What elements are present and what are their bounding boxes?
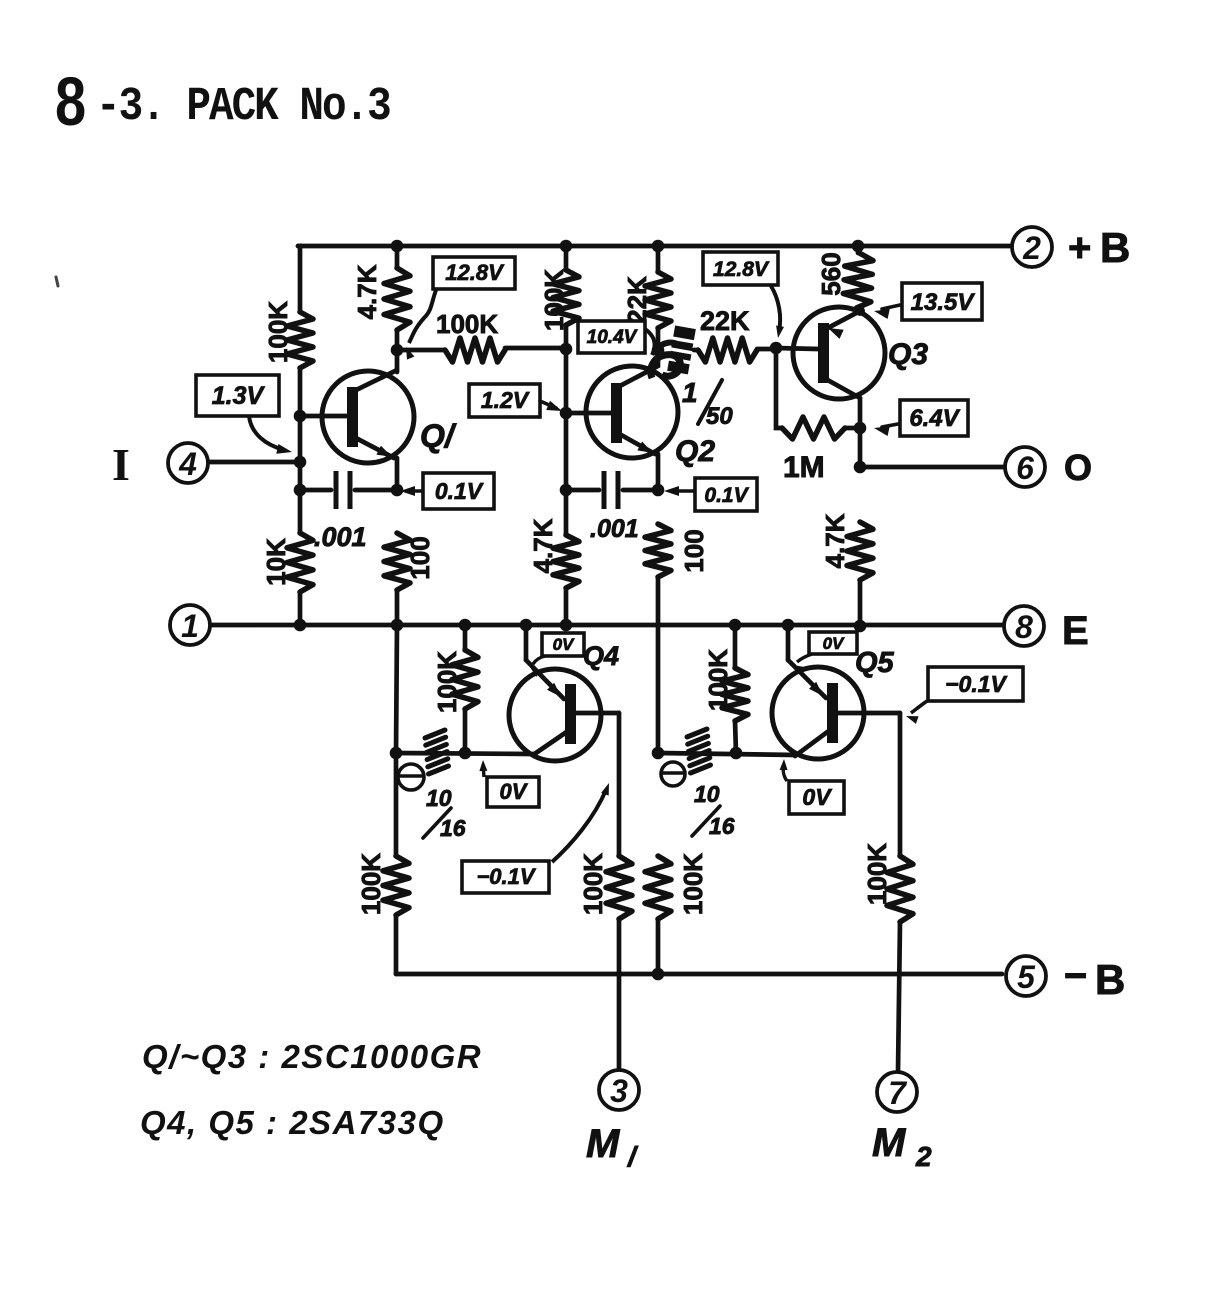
- svg-text:100K: 100K: [436, 309, 498, 339]
- svg-text:10K: 10K: [261, 538, 291, 586]
- svg-text:10: 10: [426, 785, 452, 811]
- svg-text:16: 16: [440, 815, 466, 841]
- callout box 6.4V: [900, 400, 968, 436]
- resistor 100K (Q1 base bias upper): [287, 312, 313, 368]
- terminal 1: [170, 605, 210, 645]
- svg-text:.001: .001: [590, 515, 639, 543]
- svg-text:100K: 100K: [356, 853, 386, 915]
- wire Q2 base column: [564, 349, 569, 490]
- wire x658 to -B: [656, 919, 661, 974]
- callout box 1.3V: [196, 375, 279, 416]
- arrow 1.2V: [546, 401, 562, 411]
- resistor 100K (Q4 bias): [452, 650, 478, 709]
- arrow Q1 emitter: [376, 446, 392, 457]
- transistor Q3: [793, 307, 885, 399]
- node cap1 left: [294, 484, 307, 497]
- wire +B rail: [298, 244, 1010, 249]
- svg-text:−0.1V: −0.1V: [476, 864, 536, 889]
- wire Q5 base lead: [838, 711, 900, 716]
- resistor 4.7K (Q2 base lower): [553, 535, 579, 588]
- svg-text:Q4, Q5 : 2SA733Q: Q4, Q5 : 2SA733Q: [140, 1104, 445, 1141]
- arrow 0.1V 2: [664, 486, 679, 496]
- svg-text:100: 100: [679, 529, 709, 572]
- svg-text:13.5V: 13.5V: [911, 289, 976, 316]
- resistor 100K (M2): [887, 856, 913, 922]
- wire Q5 emitter diagonal: [788, 660, 826, 698]
- arrow 13.5V: [874, 309, 890, 319]
- transistor Q2: [586, 366, 678, 458]
- svg-text:8: 8: [1015, 609, 1033, 645]
- resistor 22K (Q2 collector): [645, 272, 671, 328]
- resistor 100K (bottom left): [383, 856, 409, 915]
- wire Q5 emitter feed: [786, 625, 791, 660]
- node 1M right: [854, 422, 867, 435]
- node +B/560: [852, 240, 865, 253]
- node Q3 base: [770, 342, 783, 355]
- arrow Q4 emitter: [547, 683, 561, 697]
- svg-text:560: 560: [816, 252, 846, 295]
- node 100K-Q5 bottom: [730, 747, 743, 760]
- wire -B rail: [396, 972, 1002, 977]
- capacitor C2 .001: [602, 471, 607, 509]
- wire left-bottom column: [396, 625, 397, 753]
- wire cap2 left lead: [566, 488, 599, 493]
- pointer 0V Q5 top: [797, 654, 812, 662]
- wire Q5 collector diagonal: [795, 730, 830, 756]
- wire 22K horiz left: [694, 348, 698, 353]
- wire Q1 emitter drop: [395, 458, 400, 490]
- svg-text:4.7K: 4.7K: [528, 518, 558, 573]
- node input junction: [294, 456, 307, 469]
- svg-text:100K: 100K: [678, 853, 708, 915]
- svg-text:Q/~Q3 : 2SC1000GR: Q/~Q3 : 2SC1000GR: [142, 1038, 482, 1075]
- callout box 0V (Q5 collector): [789, 781, 844, 814]
- pointer curve 12.8V-2: [771, 286, 780, 331]
- resistor 10K: [287, 533, 313, 592]
- node Q2 bias junction: [560, 343, 573, 356]
- node +B/22K: [652, 240, 665, 253]
- svg-text:1.2V: 1.2V: [481, 387, 530, 413]
- node 100K-Q4/E rail: [459, 619, 472, 632]
- wire Q1 emitter diagonal: [352, 436, 394, 458]
- svg-text:2: 2: [915, 1141, 932, 1172]
- svg-text:E: E: [1062, 609, 1089, 653]
- node Q3 collector top: [855, 306, 865, 316]
- node trimmer wire 1 left: [390, 747, 403, 760]
- node 4.7K-2/E rail: [560, 619, 573, 632]
- node trimmer wire 2 left: [652, 747, 665, 760]
- svg-text:100: 100: [405, 536, 435, 579]
- svg-text:0V: 0V: [823, 634, 845, 653]
- arrow Q2 emitter: [637, 442, 653, 454]
- wire 22K horiz right: [757, 347, 776, 352]
- svg-text:0V: 0V: [802, 784, 832, 810]
- terminal 8: [1004, 606, 1044, 646]
- wire cap1 left lead: [300, 488, 331, 493]
- wire Q2 collector diagonal: [616, 350, 658, 388]
- resistor 560: [843, 252, 874, 308]
- terminal 2: [1012, 227, 1052, 267]
- wire 100 bottom: [395, 590, 400, 625]
- polarity circle 2: [661, 762, 685, 786]
- wire cap1 right lead: [355, 488, 397, 493]
- wire 1.2V arrow: [540, 401, 556, 408]
- resistor 100 (Q2 emitter): [645, 524, 671, 577]
- terminal 6: [1005, 447, 1045, 487]
- wire E rail: [210, 623, 1004, 628]
- svg-text:.001: .001: [314, 522, 367, 552]
- pointer -0.1V M2: [911, 701, 927, 713]
- wire Q3 emitter diagonal: [824, 378, 860, 398]
- resistor 4.7K (Q1 collector): [384, 268, 410, 330]
- wire Q1 base lead: [300, 414, 347, 419]
- wire 100K-BL top: [394, 753, 399, 856]
- callout box 0.1V (Q1): [423, 473, 494, 509]
- resistor 100K (interstage): [445, 338, 505, 362]
- wire cap2 right lead: [623, 488, 658, 493]
- svg-text:1.3V: 1.3V: [212, 382, 266, 410]
- svg-text:12.8V: 12.8V: [713, 258, 770, 281]
- wire 4.7K-2 bottom lead: [564, 588, 569, 625]
- svg-text:−0.1V: −0.1V: [945, 671, 1007, 697]
- wire Q4 base lead: [576, 711, 619, 716]
- callout box 0V (Q4 collector): [487, 777, 539, 807]
- svg-text:5: 5: [1017, 959, 1036, 995]
- svg-text:Q4: Q4: [583, 641, 619, 671]
- wire Q4 collector diagonal: [533, 731, 568, 755]
- node cap2 left: [560, 484, 573, 497]
- svg-text:1: 1: [682, 377, 698, 408]
- wire Q2 base lead: [566, 411, 611, 416]
- terminal 5: [1006, 956, 1046, 996]
- svg-text:12.8V: 12.8V: [445, 260, 505, 285]
- svg-text:−: −: [1064, 954, 1087, 998]
- svg-text:7: 7: [888, 1075, 908, 1111]
- pointer curve 1.3V: [249, 416, 284, 450]
- svg-text:B: B: [1095, 956, 1125, 1003]
- wire 100K horiz right: [505, 346, 566, 351]
- arrow 6.4V: [874, 426, 890, 436]
- node Q2 base: [560, 407, 573, 420]
- capacitor C1 .001: [334, 471, 339, 509]
- wire trimmer 2: [658, 753, 795, 755]
- wire I input: [210, 460, 300, 465]
- wire to Q1 collector node: [395, 330, 400, 350]
- node Q5 emitter/E rail: [782, 619, 795, 632]
- svg-text:I: I: [112, 439, 130, 490]
- wire M2 column: [898, 713, 903, 856]
- node +B/4.7K: [391, 240, 404, 253]
- svg-text:Q/: Q/: [420, 418, 457, 454]
- svg-text:Q2: Q2: [675, 435, 715, 468]
- wire trimmer 1: [396, 753, 533, 754]
- pointer 0V Q4 bottom: [483, 765, 484, 777]
- node E rail left: [294, 619, 307, 632]
- wire 100K-BL bottom: [394, 915, 399, 974]
- callout box 10.4V: [578, 321, 645, 353]
- svg-text:Q3: Q3: [888, 338, 928, 371]
- callout box 1.2V: [469, 384, 540, 417]
- wire M1 column bottom: [617, 919, 622, 1070]
- wire 22K bottom: [656, 328, 661, 350]
- svg-text:22K: 22K: [700, 306, 750, 336]
- svg-text:6: 6: [1016, 450, 1034, 486]
- svg-text:+: +: [1068, 226, 1091, 270]
- scribble blob: [664, 325, 700, 375]
- wire O output: [860, 465, 1005, 470]
- wire 1M right lead: [845, 426, 860, 431]
- callout box -0.1V (M2): [928, 667, 1023, 701]
- callout box 12.8V (Q1 collector): [433, 257, 515, 289]
- wire Q2 emitter long drop: [656, 577, 661, 753]
- svg-text:O: O: [1064, 447, 1092, 488]
- wire 100K-Q4 top lead: [463, 625, 468, 650]
- resistor 1M: [782, 417, 845, 439]
- node cap1 right: [391, 484, 404, 497]
- arrow squiggle tip: [406, 347, 414, 360]
- callout box 0V (Q5 base top): [809, 632, 857, 654]
- wire Q2 emitter drop: [656, 454, 661, 490]
- arrow Q3 collector: [828, 328, 844, 339]
- svg-text:100K: 100K: [578, 853, 608, 915]
- label 1/50 slash: [698, 380, 722, 424]
- svg-text:0V: 0V: [553, 635, 575, 654]
- callout box 0V (Q4 base top): [542, 633, 584, 656]
- svg-text:2: 2: [1022, 230, 1041, 266]
- wire Q1 collector diagonal: [352, 370, 397, 392]
- svg-text:B: B: [1100, 224, 1130, 271]
- svg-text:0.1V: 0.1V: [704, 484, 749, 507]
- svg-text:4.7K: 4.7K: [820, 513, 850, 568]
- arrow -0.1V M1: [601, 783, 609, 796]
- transistor Q4: [509, 669, 601, 761]
- resistor 100K (Q5 bias): [722, 668, 748, 721]
- wire M2 column bottom: [898, 922, 900, 1072]
- wire Q2 emitter diagonal: [616, 432, 655, 454]
- node Q2 collector: [652, 344, 665, 357]
- wire Q3 collector diagonal: [824, 311, 860, 330]
- arrow 1.3V: [276, 444, 292, 454]
- callout box 12.8V (Q3 base): [703, 252, 778, 285]
- svg-text:M: M: [872, 1121, 907, 1165]
- wire Q3 base drop: [776, 348, 782, 428]
- wire 4.7K top: [395, 246, 400, 268]
- wire 100K-Q5 bottom lead: [735, 721, 736, 753]
- wire Q3 emitter drop: [858, 398, 863, 467]
- svg-text:10: 10: [694, 781, 720, 807]
- wire 560 top: [856, 246, 861, 253]
- trimmer hatch 2: [687, 729, 707, 737]
- node Q1 collector: [391, 344, 404, 357]
- node Q4 emitter/E rail: [520, 619, 533, 632]
- resistor 100 (Q1 emitter): [384, 533, 410, 590]
- svg-text:-3. PACK No.3: -3. PACK No.3: [96, 80, 390, 134]
- wire 22K top: [656, 246, 661, 272]
- terminal 3: [599, 1070, 639, 1110]
- svg-text:1: 1: [181, 608, 199, 644]
- node 100K-Q5/E rail: [729, 619, 742, 632]
- arrow 12.8V-2: [776, 326, 784, 339]
- svg-text:16: 16: [709, 813, 735, 839]
- wire Q3 base lead: [776, 348, 818, 349]
- wire 100K horiz left: [397, 348, 445, 353]
- wire 6.4V arrow: [882, 424, 898, 427]
- svg-text:4: 4: [178, 446, 197, 482]
- wire 4.7K-2 top lead: [564, 490, 569, 535]
- resistor 100K (Q2 bias): [553, 270, 579, 325]
- arrow Q5 emitter: [809, 682, 823, 696]
- wire Q2 bias top: [564, 246, 569, 270]
- wire 0.1V arrow 1: [407, 489, 421, 493]
- svg-text:Q5: Q5: [855, 647, 895, 679]
- wire Q1 collector stub: [395, 350, 400, 372]
- callout box -0.1V (M1): [462, 861, 549, 893]
- node +B/100K-2: [560, 240, 573, 253]
- trimmer hatch 1: [425, 730, 445, 738]
- wire 100K-Q5 top lead: [733, 625, 738, 668]
- svg-text:0V: 0V: [500, 779, 529, 804]
- node 100/E rail: [391, 619, 404, 632]
- svg-text:50: 50: [706, 403, 733, 430]
- wire 0.1V arrow 2: [672, 489, 693, 493]
- resistor 100K (M1): [606, 856, 632, 919]
- pointer curve 10.4V: [645, 329, 655, 355]
- svg-text:4.7K: 4.7K: [352, 264, 382, 319]
- wire 100K-Q4 bottom lead: [463, 709, 468, 753]
- terminal 7: [877, 1072, 917, 1112]
- svg-text:3: 3: [610, 1073, 628, 1109]
- wire 13.5V arrow: [882, 305, 900, 309]
- pointer curve -0.1V M1: [552, 790, 606, 862]
- svg-text:100K: 100K: [703, 649, 733, 711]
- svg-text:0.1V: 0.1V: [435, 478, 484, 504]
- resistor 22K (interstage): [698, 338, 757, 362]
- resistor 100K (x658 lower): [645, 856, 671, 919]
- svg-text:M: M: [586, 1122, 621, 1166]
- wire M1 column: [617, 713, 622, 856]
- node cap2 right: [652, 484, 665, 497]
- wire Q2 bias bottom: [564, 325, 569, 349]
- node Q1 base: [294, 410, 307, 423]
- wire left column top: [298, 246, 300, 312]
- wire 4.7K-3 bottom: [858, 580, 863, 626]
- terminal 4: [168, 443, 208, 483]
- svg-text:6.4V: 6.4V: [909, 405, 960, 432]
- wire left column bottom: [298, 592, 303, 625]
- pointer squiggle 12.8V-1: [409, 290, 436, 343]
- node 100K-Q4 bottom: [459, 747, 472, 760]
- svg-text:22K: 22K: [622, 276, 652, 324]
- pointer 0V Q5 bottom: [783, 764, 787, 781]
- transistor Q1: [322, 371, 414, 463]
- callout box 0.1V (Q2): [695, 478, 757, 511]
- node O junction: [854, 461, 867, 474]
- wire Q4 emitter feed: [524, 625, 529, 660]
- stray mark: [56, 277, 58, 286]
- svg-text:100K: 100K: [539, 269, 569, 331]
- svg-text:100K: 100K: [432, 651, 462, 713]
- wire Q4 emitter diagonal: [526, 660, 564, 699]
- svg-text:8: 8: [55, 64, 86, 141]
- wire 560 bottom: [858, 308, 863, 311]
- arrow 0.1V 1: [400, 486, 415, 496]
- node 4.7K-3/E rail: [854, 620, 867, 633]
- svg-text:1M: 1M: [783, 451, 825, 484]
- svg-text:100K: 100K: [862, 843, 892, 905]
- pointer 0V Q4 top: [533, 656, 545, 664]
- resistor 4.7K (Q3 emitter): [847, 522, 873, 580]
- transistor Q5: [772, 667, 864, 759]
- svg-text:10.4V: 10.4V: [587, 327, 638, 348]
- wire left column mid: [298, 368, 303, 533]
- callout box 13.5V: [902, 283, 982, 320]
- polarity circle 1: [398, 764, 424, 790]
- node x658/-B rail: [652, 968, 665, 981]
- svg-text:100K: 100K: [263, 301, 293, 363]
